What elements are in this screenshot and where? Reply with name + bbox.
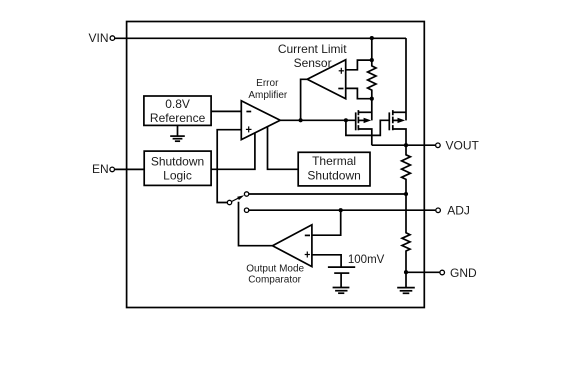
- resistor R1 VOUT to tap: [402, 145, 411, 194]
- wire GND: [406, 271, 440, 273]
- box Thermal Shutdown: [298, 152, 370, 186]
- minus (current limit sensor): [338, 88, 343, 90]
- resistor current sense: [368, 60, 376, 99]
- box Shutdown Logic: [144, 151, 211, 185]
- wire thermal shutdown to error amp: [268, 127, 299, 170]
- wire current limit sensor output to gate line: [301, 79, 308, 120]
- wire sense resistor top to VIN rail: [371, 38, 373, 60]
- op-amp Output Mode Comparator: [273, 225, 312, 267]
- svg-text:Shutdown: Shutdown: [307, 168, 360, 182]
- svg-text:Thermal: Thermal: [312, 154, 356, 168]
- wire VOUT: [372, 144, 436, 146]
- wire comparator non-inverting to 100mV: [312, 255, 341, 267]
- svg-text:Output Mode: Output Mode: [246, 264, 304, 275]
- minus (comparator inverting): [305, 234, 310, 236]
- wire shutdown logic output to error amp: [211, 133, 255, 169]
- switch arm: [232, 195, 245, 201]
- wire VIN rail: [115, 37, 406, 39]
- svg-text:Sensor: Sensor: [294, 56, 332, 70]
- wire current limit sensor - input: [346, 88, 372, 98]
- ground (100mV): [333, 288, 350, 294]
- svg-text:Current Limit: Current Limit: [278, 42, 347, 56]
- svg-text:GND: GND: [450, 266, 477, 280]
- wire comparator output to switch: [239, 202, 273, 246]
- wire VIN rail down to mosfet Q2 drain: [405, 38, 407, 120]
- svg-text:Logic: Logic: [163, 168, 192, 182]
- wire error amp non-inverting input down to switch pole: [217, 130, 241, 203]
- transistor Q1 (pass PMOS): [356, 110, 372, 145]
- switch pole: [227, 200, 231, 204]
- battery 100mV: [328, 267, 355, 287]
- wire sense resistor bottom to mosfet Q1 drain: [371, 99, 373, 121]
- plus (comparator non-inverting): [305, 252, 310, 258]
- minus (error amp inverting input): [246, 111, 251, 113]
- wire gate drive step to second mosfet: [346, 120, 389, 135]
- svg-text:Shutdown: Shutdown: [151, 154, 204, 168]
- pin EN: [110, 167, 115, 172]
- wire EN to Shutdown Logic: [115, 168, 145, 170]
- plus (current limit sensor): [339, 68, 344, 74]
- switch upper contact: [244, 192, 248, 196]
- node gate line / Q2 branch: [344, 118, 348, 122]
- pin VOUT: [436, 143, 441, 148]
- plus (error amp non-inverting input): [246, 126, 252, 132]
- node GND / R2 bottom: [404, 270, 408, 274]
- ground (main): [397, 272, 415, 293]
- wire reference to error amp inverting input: [211, 110, 241, 112]
- svg-text:Amplifier: Amplifier: [248, 90, 288, 101]
- ground (below reference): [170, 125, 185, 141]
- op-amp Error Amplifier: [241, 101, 280, 140]
- svg-text:100mV: 100mV: [348, 254, 385, 266]
- op-amp Current Limit Sensor: [307, 60, 346, 99]
- svg-text:EN: EN: [92, 162, 109, 176]
- node ADJ / comparator input: [339, 208, 343, 212]
- svg-text:Error: Error: [256, 78, 279, 89]
- wire ADJ line: [249, 209, 436, 211]
- node sense resistor top: [370, 58, 374, 62]
- box 0.8V Reference: [144, 96, 211, 125]
- node VOUT / divider: [404, 143, 408, 147]
- svg-text:VIN: VIN: [88, 31, 108, 45]
- transistor Q2 (pass PMOS): [389, 110, 406, 145]
- pin GND: [440, 270, 445, 275]
- wire tap to switch upper contact: [249, 193, 406, 195]
- node divider tap: [404, 192, 408, 196]
- resistor R2 tap to ground: [402, 194, 410, 272]
- svg-text:0.8V: 0.8V: [165, 97, 190, 111]
- switch lower contact: [244, 208, 248, 212]
- svg-text:Reference: Reference: [150, 111, 206, 125]
- wire error amp output gate drive: [280, 119, 356, 121]
- node VIN-rail/sense-resistor junction: [370, 36, 374, 40]
- wire comparator inverting input to ADJ line: [312, 210, 341, 235]
- wire current limit sensor + input: [346, 60, 372, 70]
- svg-text:ADJ: ADJ: [447, 204, 470, 218]
- pin VIN: [110, 36, 115, 41]
- pin ADJ: [436, 208, 441, 213]
- node sense resistor bottom: [370, 97, 374, 101]
- outer boundary box: [127, 22, 425, 308]
- node gate line / CLS output: [299, 118, 303, 122]
- svg-text:VOUT: VOUT: [446, 139, 480, 153]
- svg-text:Comparator: Comparator: [248, 275, 301, 286]
